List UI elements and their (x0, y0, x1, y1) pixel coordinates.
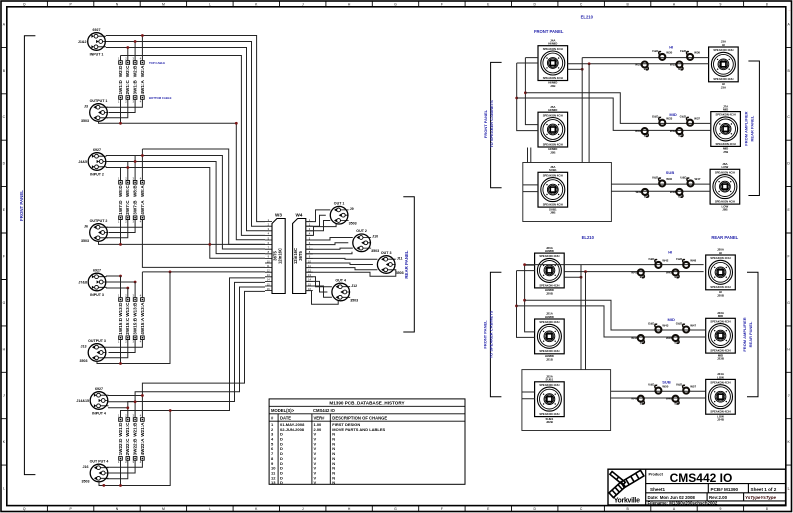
wire group1 bus conductor 3 (106, 48, 265, 231)
wire group2 bus conductor 3 (106, 162, 265, 254)
svg-text:4W7:A: 4W7:A (140, 200, 145, 215)
svg-text:J11: J11 (397, 256, 403, 260)
wire group1 riser 4 (120, 56, 122, 61)
svg-text:B2: B2 (675, 341, 679, 345)
wire group1 riser 1 (141, 36, 143, 61)
wire W3 pin11 feed (142, 220, 265, 268)
svg-text:F: F (441, 2, 443, 6)
svg-text:W44: W44 (631, 336, 637, 340)
svg-text:HI: HI (668, 250, 672, 255)
svg-text:SPEAKON 4C/H: SPEAKON 4C/H (710, 381, 730, 385)
connector J7 (INPUT 3) (78, 268, 106, 296)
svg-text:OUT 1: OUT 1 (334, 202, 345, 206)
wire group1 col1 drop (120, 99, 122, 123)
svg-text:U&D: U&D (648, 383, 654, 387)
svg-text:OUT 4: OUT 4 (335, 278, 346, 282)
junction IN3 pin1 (119, 275, 122, 278)
svg-text:2W22:C: 2W22:C (125, 438, 130, 456)
speakON connector J5A (538, 105, 568, 155)
svg-text:J21B: J21B (546, 357, 553, 361)
svg-text:G&D: G&D (680, 115, 686, 119)
speakON connector J6A (538, 165, 568, 215)
svg-text:MOVE PARTS AND LABLES: MOVE PARTS AND LABLES (332, 427, 385, 432)
svg-text:8: 8 (766, 2, 768, 6)
svg-text:W36: W36 (694, 51, 700, 55)
svg-text:W48: W48 (666, 397, 672, 401)
junction IN4 pin3 (126, 406, 129, 409)
svg-text:INPUT 1: INPUT 1 (90, 52, 104, 56)
connector J1 (INPUT 1) (78, 28, 106, 56)
svg-text:4W1:A: 4W1:A (140, 80, 145, 95)
svg-text:SUB1: SUB1 (546, 378, 554, 382)
wire OUTPUT4 pin staircase (106, 460, 142, 479)
svg-text:HI/MID: HI/MID (548, 42, 557, 46)
wire group4 col1 drop (120, 460, 122, 485)
wire OUT2 shell to W4 p8 (306, 252, 352, 254)
svg-text:J7&8: J7&8 (78, 280, 87, 284)
junction B tap lower (523, 299, 526, 302)
speakON connector J8A (710, 162, 740, 212)
svg-text:J3A: J3A (721, 85, 727, 89)
svg-text:FROM AMPLIFIER: FROM AMPLIFIER (743, 111, 748, 145)
wire group2 col1 drop (120, 220, 122, 245)
svg-text:MID: MID (669, 112, 676, 117)
junction B tap (524, 91, 527, 94)
junction IN4 pin1 (141, 394, 144, 397)
terminal strip group 4 (W21/W22) (118, 414, 145, 465)
svg-text:HI/MID: HI/MID (548, 108, 557, 112)
SUB distribution box (lower group) (522, 370, 611, 431)
wire speakON2 drops to SUB box (528, 148, 531, 163)
svg-text:6927: 6927 (95, 387, 103, 391)
junction HI tap lower (584, 270, 587, 273)
svg-text:J12: J12 (351, 284, 357, 288)
bracket lower group right (747, 272, 758, 396)
title block (608, 469, 786, 505)
junction A tap lower (515, 305, 518, 308)
svg-text:U&D: U&D (652, 175, 658, 179)
crimp terminal W42 (648, 257, 668, 268)
svg-text:W49: W49 (631, 397, 637, 401)
svg-text:SPEAKON 4C/H: SPEAKON 4C/H (710, 349, 730, 353)
junction IN4 pin2 (134, 400, 137, 403)
svg-text:DESCRIPTION OF CHANGE: DESCRIPTION OF CHANGE (332, 416, 387, 421)
svg-text:MID: MID (723, 108, 728, 112)
svg-text:YsTypeYsType: YsTypeYsType (745, 495, 776, 500)
svg-text:SPEAKON 4C/H: SPEAKON 4C/H (539, 412, 559, 416)
svg-text:Sheet1: Sheet1 (650, 487, 666, 492)
svg-text:3W22:B: 3W22:B (133, 438, 138, 456)
svg-text:W46: W46 (666, 336, 672, 340)
svg-text:3W1:B: 3W1:B (133, 80, 138, 95)
svg-text:W41: W41 (631, 270, 637, 274)
wire W4 p14 to OUT4 pin2 (306, 281, 328, 292)
wire group1 bus conductor 2 (106, 42, 265, 227)
svg-text:TO SPEAKER CABINETS: TO SPEAKER CABINETS (489, 310, 494, 358)
svg-text:J20B: J20B (546, 291, 553, 295)
svg-text:MID: MID (668, 317, 675, 322)
svg-text:B2: B2 (678, 134, 682, 138)
crimp terminal W47b (676, 322, 697, 333)
svg-text:W47: W47 (690, 323, 696, 327)
crimp terminal W57 (676, 383, 697, 394)
svg-text:J14&15: J14&15 (76, 399, 89, 403)
svg-text:OUTPUT 2: OUTPUT 2 (90, 219, 108, 223)
connector J14 (INPUT 4) (76, 387, 108, 415)
wire group3 riser 3 (134, 282, 136, 298)
wire OUTPUT2 pin staircase (106, 220, 142, 238)
svg-text:W21:A: W21:A (140, 422, 145, 437)
wire HI lower wire lower (564, 271, 703, 273)
junction O3 shell tap (119, 362, 122, 365)
svg-text:F&D: F&D (676, 257, 682, 261)
svg-text:U&D: U&D (680, 175, 686, 179)
crimp terminal W36 (680, 49, 700, 60)
svg-text:OUT 3: OUT 3 (381, 251, 392, 255)
svg-text:J6B: J6B (550, 211, 555, 215)
wire group3 bus to W3 pin12 (142, 271, 265, 273)
junction IN3 pin2 (134, 281, 137, 284)
svg-text:3503: 3503 (81, 239, 89, 243)
svg-text:W48: W48 (690, 259, 696, 263)
svg-text:INPUT 4: INPUT 4 (92, 411, 106, 415)
junction HI tap2 lower (580, 276, 583, 279)
svg-text:MID: MID (718, 314, 723, 318)
top and bottom border tick divisions (46, 1, 48, 512)
junction O1 shell corner (235, 122, 238, 125)
crimp terminal W48 (676, 257, 696, 268)
svg-text:SPEAKON 4C/H: SPEAKON 4C/H (710, 256, 730, 260)
svg-text:SPEAKON 4C/H: SPEAKON 4C/H (710, 285, 730, 289)
svg-text:Yorkville: Yorkville (614, 498, 640, 505)
connector W3 (36T5 12in16C) (265, 213, 285, 294)
connector J3 (OUTPUT 1) (81, 99, 108, 123)
svg-text:9: 9 (719, 507, 721, 511)
wire spk1 right pin2 lower (564, 276, 581, 278)
crimp terminal W40 (652, 175, 673, 186)
wire OUTPUT1 shell wire to W3 pin5 (99, 121, 266, 240)
svg-text:W2:D: W2:D (118, 65, 123, 77)
svg-text:3503: 3503 (82, 479, 90, 483)
svg-text:J20B: J20B (717, 293, 724, 297)
svg-text:J: J (3, 394, 5, 398)
wire SUB box left stubs (523, 185, 538, 192)
svg-text:J24B: J24B (717, 418, 724, 422)
svg-text:B2: B2 (640, 341, 644, 345)
connector J6 (OUTPUT 2) (81, 219, 108, 243)
svg-text:W13:D: W13:D (118, 302, 123, 317)
wire W4 p1 to OUT1 pin1 (306, 210, 331, 222)
svg-text:1W15:D: 1W15:D (118, 317, 123, 335)
left and right border tick divisions (1, 46, 792, 48)
svg-text:CMS442 IO: CMS442 IO (670, 471, 733, 485)
svg-text:B2: B2 (675, 275, 679, 279)
wire W4 p10 to OUT3 pin2 (306, 263, 373, 265)
crimp terminal W35 (670, 62, 683, 72)
svg-text:L: L (209, 507, 211, 511)
svg-text:B2: B2 (640, 275, 644, 279)
svg-text:HI: HI (722, 43, 725, 47)
svg-text:B2: B2 (678, 67, 682, 71)
speakON connector J20A (535, 246, 565, 296)
connector J13 (OUTPUT 3) (80, 339, 107, 363)
svg-text:SUB: SUB (662, 380, 671, 385)
junction IN1 pin2 (134, 40, 137, 43)
svg-text:G: G (787, 301, 790, 305)
crimp terminal W41 (631, 269, 644, 279)
svg-text:HI: HI (669, 44, 673, 49)
svg-text:VER#: VER# (314, 416, 326, 421)
wire spk left vertical B (525, 58, 538, 125)
svg-text:W21:B: W21:B (133, 422, 138, 437)
junction O2 shell crossing (208, 243, 211, 246)
junction IN3 pin3 (126, 287, 129, 290)
svg-text:3503: 3503 (396, 271, 404, 275)
junction A tap (515, 97, 518, 100)
svg-text:W37: W37 (694, 117, 700, 121)
svg-text:F: F (441, 507, 443, 511)
svg-text:W8:A: W8:A (140, 185, 145, 197)
svg-text:REAR PANEL: REAR PANEL (404, 250, 409, 279)
svg-text:9: 9 (719, 2, 721, 6)
wire group1 riser 3 (127, 48, 129, 61)
svg-text:J16: J16 (83, 465, 89, 469)
wire spk left vertical A (517, 63, 538, 131)
junction O1 shell tap (119, 122, 122, 125)
terminal strip group 3 (W13/W15) (118, 294, 145, 344)
svg-text:W2:B: W2:B (133, 65, 138, 77)
svg-text:B2: B2 (678, 195, 682, 199)
svg-text:W8:C: W8:C (125, 185, 130, 197)
connector J16 (OUT PUT 4) (82, 459, 109, 483)
speakON connector J4A (538, 38, 568, 88)
svg-text:V: V (314, 480, 317, 485)
svg-text:G: G (394, 507, 397, 511)
wire group2 bus conductor 2 (106, 156, 265, 250)
wire group1 riser 2 (134, 42, 136, 61)
svg-text:FRONT PANEL: FRONT PANEL (483, 320, 488, 349)
svg-text:HI/MID: HI/MID (545, 249, 554, 253)
svg-text:Date: Mon Jun 02 2008: Date: Mon Jun 02 2008 (648, 495, 696, 500)
svg-text:SPEAKON 4C/H: SPEAKON 4C/H (543, 142, 563, 146)
svg-text:LOW: LOW (722, 165, 729, 169)
svg-text:D: D (280, 480, 283, 485)
svg-text:J23B: J23B (717, 357, 724, 361)
crimp terminal W50 (648, 383, 669, 394)
junction IN1 pin3 (126, 46, 129, 49)
svg-text:N: N (332, 480, 335, 485)
svg-text:4W22:A: 4W22:A (140, 438, 145, 456)
wire W3 pin13 run to group4 col (121, 278, 266, 418)
svg-text:G&D: G&D (648, 322, 654, 326)
svg-text:M1390 PCB_DATABASE_HISTORY: M1390 PCB_DATABASE_HISTORY (329, 401, 404, 406)
wire SUB lower feed (588, 64, 590, 163)
wire INPUT3 pin wires (106, 276, 135, 288)
junction O4 shell tap (119, 484, 122, 487)
svg-text:13: 13 (271, 480, 276, 485)
wire SUB lower wire right (611, 190, 710, 192)
svg-text:SPEAKON 4C/H: SPEAKON 4C/H (539, 254, 559, 258)
bracket top group right (748, 61, 759, 196)
wire group2 riser 3 (127, 162, 129, 181)
wire OUTPUT3 shell wire riser (97, 272, 170, 364)
wire OUT3 shell to W4 p12 (306, 269, 396, 276)
terminal strip group 1 (W2/W1) (118, 57, 145, 104)
svg-text:W31: W31 (635, 63, 641, 67)
svg-text:OUT 2: OUT 2 (356, 229, 367, 233)
junction IN1 pin1 (141, 34, 144, 37)
svg-text:U&D: U&D (676, 383, 682, 387)
svg-text:SPEAKON 4C/H: SPEAKON 4C/H (543, 47, 563, 51)
svg-text:W30: W30 (666, 51, 672, 55)
svg-text:B2: B2 (640, 401, 644, 405)
svg-text:W47: W47 (695, 177, 701, 181)
svg-text:J22B: J22B (546, 420, 553, 424)
svg-text:3503: 3503 (371, 249, 379, 253)
wire MID feed upper lower (525, 300, 706, 330)
wire W4 p11 to OUT3 pin3 (306, 268, 378, 270)
wire group1 bus conductor 4 (121, 56, 266, 236)
svg-text:2W1:C: 2W1:C (125, 80, 130, 95)
crimp terminal W48b (666, 396, 679, 406)
svg-text:SUB: SUB (666, 170, 675, 175)
svg-text:J6: J6 (84, 224, 88, 228)
wire lower spk vertical B (525, 265, 535, 332)
svg-text:36T5: 36T5 (298, 251, 303, 261)
svg-text:SPEAKON 4C/H: SPEAKON 4C/H (543, 76, 563, 80)
wire W4 p7 to OUT2 pin3 (306, 248, 353, 249)
crimp terminal W43 (648, 322, 669, 333)
crimp terminal W38 (670, 189, 683, 199)
junction IN2 pin2 (134, 160, 137, 163)
svg-text:HI: HI (719, 251, 722, 255)
svg-text:W2:A: W2:A (140, 65, 145, 77)
wire group2 riser 2 (134, 156, 136, 181)
svg-text:1W1:D: 1W1:D (118, 80, 123, 95)
svg-text:6927: 6927 (93, 148, 101, 152)
wire OUT1 shell to W4 p4 (306, 224, 336, 235)
speakON connector J3A-HI (709, 40, 739, 90)
svg-text:L: L (209, 2, 211, 6)
wire group2 bus conductor 1 (142, 149, 265, 244)
svg-text:Q: Q (23, 507, 26, 511)
wire W4 p15 to OUT4 pin3 (306, 286, 332, 297)
svg-text:W45: W45 (666, 270, 672, 274)
wire W4 p3 to OUT1 pin3 (306, 221, 331, 231)
svg-text:J3: J3 (84, 104, 88, 108)
svg-text:J4&5: J4&5 (78, 160, 87, 164)
wire INPUT4 pin wires (108, 396, 142, 408)
svg-text:02-JUN-2008: 02-JUN-2008 (280, 427, 305, 432)
svg-text:W8:D: W8:D (118, 185, 123, 197)
wire SUB lower feed lower (585, 272, 587, 370)
svg-text:6927: 6927 (93, 268, 101, 272)
svg-text:F&D: F&D (652, 49, 658, 53)
svg-text:HI/MID: HI/MID (545, 315, 554, 319)
bracket OUT rear panel (403, 197, 414, 332)
wire SUB box left stubs lower (522, 392, 535, 399)
junction IN2 pin3 (126, 166, 129, 169)
wire HI upper wire lower (overhead) (525, 264, 704, 266)
svg-text:BOTTOM CABLE: BOTTOM CABLE (149, 96, 172, 100)
junction O4 shell corner (102, 484, 105, 487)
svg-text:PCB# M1390: PCB# M1390 (711, 487, 739, 492)
svg-text:W50: W50 (662, 384, 668, 388)
wire SUB upper wire lower (611, 390, 706, 392)
svg-text:SPEAKON 4C/H: SPEAKON 4C/H (539, 320, 559, 324)
svg-text:1W22:D: 1W22:D (118, 438, 123, 456)
svg-text:MODEL(S)>: MODEL(S)> (271, 408, 295, 413)
svg-text:B2: B2 (644, 134, 648, 138)
svg-text:FRONT PANEL: FRONT PANEL (19, 190, 24, 221)
speakON connector J7A (711, 104, 741, 154)
wire W3 pin14 run to group4 col (128, 282, 265, 417)
svg-text:DATE: DATE (280, 416, 291, 421)
crimp terminal W34 (635, 128, 648, 138)
svg-text:3503: 3503 (350, 298, 358, 302)
svg-text:EL210: EL210 (581, 14, 594, 19)
svg-text:W57: W57 (690, 384, 696, 388)
svg-text:G: G (394, 2, 397, 6)
svg-text:Filename: M1390v200schsch2002: Filename: M1390v200schsch2002 (648, 501, 718, 506)
crimp terminal W44 (631, 335, 644, 345)
connector W4 (12in16C 36T5) (293, 213, 313, 294)
svg-text:FRONT PANEL: FRONT PANEL (483, 109, 488, 138)
junction overhead corner (523, 263, 526, 266)
svg-text:J13: J13 (81, 344, 87, 348)
bracket top group left (491, 62, 502, 187)
svg-text:2W15:C: 2W15:C (125, 317, 130, 335)
svg-text:TOP CABLE: TOP CABLE (149, 61, 165, 65)
svg-text:J: J (302, 2, 304, 6)
svg-text:J4B: J4B (550, 84, 555, 88)
wire group2 bus conductor 4 (106, 168, 265, 259)
wire W4 p5 to OUT2 pin1 (306, 238, 353, 241)
crimp terminal W39 (635, 189, 648, 199)
svg-text:SPEAKON 4C/H: SPEAKON 4C/H (715, 200, 735, 204)
wire group3 riser 4 (141, 272, 143, 298)
wire HI drop to SUB lower (580, 265, 582, 370)
svg-text:SPEAKON 4C/H: SPEAKON 4C/H (715, 170, 735, 174)
junction HI tap2 (581, 68, 584, 71)
connector J12 (OUT 4) (332, 278, 358, 302)
svg-text:B2: B2 (644, 195, 648, 199)
bracket left FRONT PANEL (24, 36, 35, 475)
svg-text:FRONT PANEL: FRONT PANEL (534, 29, 564, 34)
svg-text:OUT PUT 4: OUT PUT 4 (90, 459, 109, 463)
crimp terminal W37 (680, 115, 701, 126)
svg-text:G&D: G&D (676, 322, 682, 326)
connector J4 (INPUT 2) (78, 148, 106, 176)
svg-text:W13:C: W13:C (125, 302, 130, 317)
svg-text:SPEAKON 4C/H: SPEAKON 4C/H (539, 283, 559, 287)
svg-text:W35: W35 (670, 63, 676, 67)
svg-text:REAR PANEL: REAR PANEL (711, 235, 738, 240)
svg-text:W32: W32 (670, 129, 676, 133)
wire HI lower wire (567, 63, 708, 65)
connector J11 (OUT 3) (377, 251, 403, 275)
wire OUTPUT3 pin staircase (106, 340, 142, 358)
svg-text:J7B: J7B (723, 150, 728, 154)
svg-text:W42: W42 (662, 259, 668, 263)
bracket lower group left (490, 272, 501, 396)
terminal strip group 2 (W8/W7) (118, 177, 145, 224)
svg-text:W34: W34 (635, 129, 641, 133)
speakON connector J23A (706, 311, 736, 361)
junction O4 shell top (169, 409, 172, 412)
svg-text:W21:D: W21:D (118, 422, 123, 437)
wire spk1 right pin2 (567, 68, 582, 70)
